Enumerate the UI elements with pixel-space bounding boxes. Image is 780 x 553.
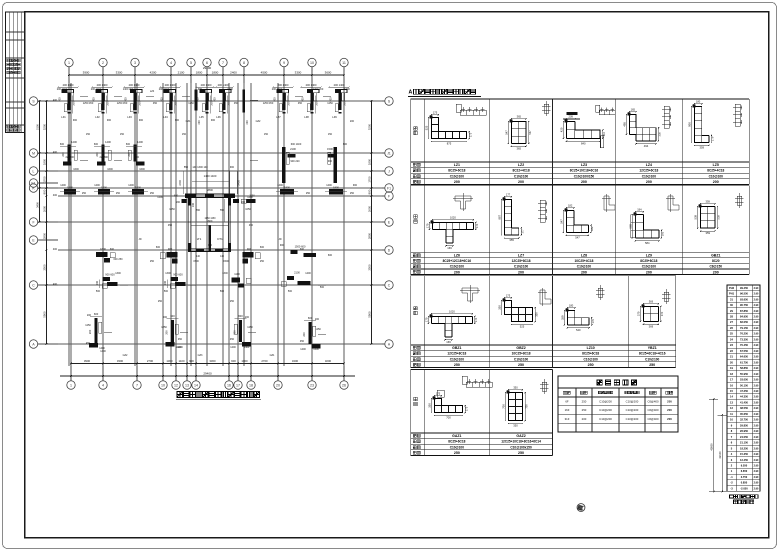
svg-text:2.90: 2.90 [754, 453, 759, 456]
wall column 9 [328, 83, 349, 119]
core inner wall [191, 219, 228, 251]
svg-text:500: 500 [288, 290, 293, 293]
svg-text:200: 200 [163, 316, 168, 319]
svg-text:2.90: 2.90 [754, 482, 759, 485]
svg-text:C6@400: C6@400 [647, 408, 659, 412]
shear wall table title [597, 380, 637, 385]
svg-text:3300: 3300 [209, 359, 216, 363]
svg-text:1300: 1300 [222, 272, 228, 275]
svg-text:1800: 1800 [135, 185, 141, 189]
svg-text:179: 179 [711, 136, 715, 141]
svg-text:1800: 1800 [333, 185, 339, 189]
svg-text:87.850: 87.850 [740, 309, 748, 313]
wall group 17 [243, 247, 254, 264]
svg-text:250: 250 [306, 192, 311, 195]
svg-text:GZ1: GZ1 [270, 354, 275, 357]
svg-text:150: 150 [264, 133, 269, 136]
column table band 1 row header [414, 127, 417, 130]
svg-text:2.90: 2.90 [754, 344, 759, 347]
svg-text:1800: 1800 [67, 185, 73, 189]
svg-text:GAZ2: GAZ2 [516, 434, 525, 438]
svg-text:200: 200 [518, 270, 524, 274]
section LZ8 [567, 211, 589, 233]
svg-text:LZ3: LZ3 [127, 115, 132, 119]
svg-text:170: 170 [425, 223, 429, 228]
svg-text:1800: 1800 [101, 185, 107, 189]
core side marks [174, 195, 256, 204]
svg-text:2.90: 2.90 [754, 321, 759, 324]
svg-text:2.90: 2.90 [754, 465, 759, 468]
svg-text:12C25+10C18+8C16+6C14: 12C25+10C18+8C16+6C14 [501, 440, 541, 444]
svg-text:250: 250 [588, 363, 594, 367]
svg-text:3400: 3400 [292, 359, 299, 363]
svg-text:1800: 1800 [196, 71, 203, 75]
svg-text:250: 250 [116, 192, 121, 195]
svg-text:1500: 1500 [223, 260, 229, 263]
svg-text:359: 359 [560, 315, 564, 320]
svg-text:3300: 3300 [117, 359, 124, 363]
svg-text:LZ5: LZ5 [713, 163, 719, 167]
svg-text:3500: 3500 [367, 264, 371, 271]
svg-text:250: 250 [82, 192, 87, 195]
wall column 2 [91, 83, 112, 119]
svg-text:180: 180 [569, 304, 574, 308]
svg-text:194: 194 [637, 208, 642, 212]
svg-text:F: F [32, 220, 34, 224]
svg-text:200: 200 [164, 280, 167, 285]
svg-text:200: 200 [315, 318, 320, 321]
wall segment h3 [128, 185, 148, 194]
svg-text:250: 250 [454, 451, 460, 455]
svg-text:900: 900 [161, 97, 164, 102]
svg-text:8C22+4C18: 8C22+4C18 [512, 169, 529, 173]
elevation table entries [729, 286, 759, 491]
svg-text:F1: F1 [387, 186, 391, 190]
svg-text:200: 200 [96, 280, 99, 285]
svg-text:600 250: 600 250 [113, 258, 123, 261]
svg-text:600: 600 [170, 314, 175, 318]
section GBZ1 [701, 207, 715, 229]
svg-text:1800: 1800 [284, 185, 290, 189]
svg-text:600: 600 [174, 195, 179, 198]
svg-text:1500: 1500 [327, 147, 333, 151]
column table band 2 frame [411, 185, 750, 274]
column table band 3 row header [414, 307, 417, 310]
svg-text:450: 450 [86, 342, 91, 345]
svg-text:8C20: 8C20 [712, 259, 720, 263]
svg-text:99.450: 99.450 [740, 286, 748, 290]
svg-text:4: 4 [170, 61, 172, 65]
svg-text:900: 900 [330, 97, 333, 102]
svg-text:50.150: 50.150 [740, 383, 748, 387]
svg-text:1250: 1250 [161, 326, 167, 329]
svg-text:LZ7: LZ7 [276, 115, 281, 119]
wall column 8 [300, 83, 321, 119]
svg-text:64.650: 64.650 [740, 355, 748, 359]
svg-text:900 220: 900 220 [290, 160, 300, 163]
column table band 3 texts [413, 346, 666, 367]
svg-text:1400: 1400 [128, 184, 134, 187]
svg-text:900: 900 [168, 247, 173, 251]
svg-text:369: 369 [649, 300, 654, 304]
svg-text:200: 200 [241, 201, 246, 204]
svg-text:C10@200: C10@200 [626, 399, 639, 403]
svg-text:584: 584 [645, 241, 650, 245]
svg-text:200: 200 [174, 101, 178, 106]
svg-text:GBZ1: GBZ1 [452, 346, 461, 350]
column table band 4 frame [411, 370, 553, 456]
svg-text:2.90: 2.90 [754, 293, 759, 296]
svg-text:500: 500 [320, 286, 325, 289]
svg-text:2.90: 2.90 [754, 287, 759, 290]
svg-text:8C25+10C18+6C16: 8C25+10C18+6C16 [570, 169, 599, 173]
svg-text:550: 550 [220, 209, 225, 212]
svg-text:76.250: 76.250 [740, 332, 748, 336]
section LZ5 [695, 107, 709, 143]
svg-text:1400: 1400 [230, 346, 236, 349]
svg-text:365: 365 [517, 115, 522, 119]
svg-text:1050: 1050 [245, 208, 251, 211]
svg-text:200: 200 [245, 316, 250, 319]
svg-text:21.150: 21.150 [740, 441, 748, 445]
svg-text:1600: 1600 [100, 247, 106, 251]
svg-text:250: 250 [158, 300, 163, 303]
wall column 26 [302, 316, 320, 351]
svg-text:900: 900 [302, 97, 305, 102]
svg-text:1600: 1600 [139, 168, 145, 171]
svg-text:7: 7 [222, 61, 224, 65]
svg-text:200: 200 [646, 270, 652, 274]
svg-text:1050: 1050 [169, 208, 175, 211]
bottom grid bubbles [67, 366, 348, 389]
svg-text:250: 250 [260, 260, 265, 263]
svg-text:M: M [32, 151, 35, 155]
svg-text:6: 6 [206, 61, 208, 65]
svg-text:1800: 1800 [212, 71, 219, 75]
svg-text:175: 175 [436, 392, 441, 396]
svg-text:LT1: LT1 [197, 237, 202, 241]
svg-text:2.90: 2.90 [754, 442, 759, 445]
svg-text:C6@400: C6@400 [647, 399, 659, 403]
svg-text:C6@400: C6@400 [647, 417, 659, 421]
svg-text:195: 195 [661, 231, 665, 236]
wall column 7 [272, 83, 293, 119]
svg-text:61.750: 61.750 [740, 360, 748, 364]
svg-text:GZ2: GZ2 [123, 354, 128, 357]
svg-text:200: 200 [646, 180, 652, 184]
svg-text:C10@100/150: C10@100/150 [574, 174, 595, 178]
svg-text:900: 900 [125, 97, 128, 102]
svg-text:8C25+12C18+6C16: 8C25+12C18+6C16 [443, 259, 472, 263]
svg-text:220 900: 220 900 [99, 156, 109, 159]
svg-text:350: 350 [427, 403, 431, 408]
svg-text:200: 200 [246, 120, 249, 125]
svg-text:330: 330 [658, 132, 662, 137]
svg-text:150: 150 [120, 133, 125, 136]
wall column 6 [212, 83, 233, 119]
svg-text:DT1: DT1 [217, 237, 223, 241]
svg-text:1400: 1400 [60, 184, 66, 187]
svg-text:3900: 3900 [84, 359, 91, 363]
svg-text:547: 547 [575, 235, 580, 239]
svg-text:600: 600 [208, 244, 213, 247]
section GBZ2 [432, 317, 473, 337]
svg-text:200: 200 [454, 180, 460, 184]
svg-text:900: 900 [211, 119, 216, 122]
svg-text:F: F [388, 194, 390, 198]
svg-text:200: 200 [138, 101, 142, 106]
svg-text:1400 200: 1400 200 [313, 88, 324, 91]
svg-text:29400: 29400 [203, 371, 212, 375]
svg-text:600: 600 [156, 246, 161, 249]
svg-text:LZ4: LZ4 [646, 163, 652, 167]
svg-text:2.90: 2.90 [754, 356, 759, 359]
svg-text:14: 14 [194, 384, 198, 388]
svg-text:2.90: 2.90 [754, 390, 759, 393]
wall column 5 [195, 83, 216, 119]
shear wall table header row [563, 391, 672, 394]
svg-text:2.90: 2.90 [754, 310, 759, 313]
svg-text:200: 200 [106, 101, 110, 106]
svg-text:900: 900 [280, 244, 285, 247]
svg-text:C10@100: C10@100 [450, 445, 465, 449]
svg-text:900: 900 [214, 97, 217, 102]
svg-text:200: 200 [518, 180, 524, 184]
svg-text:450: 450 [234, 102, 239, 105]
svg-text:250: 250 [150, 192, 155, 195]
svg-text:C10@200: C10@200 [626, 408, 639, 412]
svg-text:600: 600 [94, 143, 99, 146]
svg-text:1250 450: 1250 450 [263, 102, 274, 105]
column table band 4 texts [413, 434, 541, 455]
svg-text:600: 600 [110, 248, 115, 251]
svg-text:LZ7: LZ7 [518, 253, 524, 257]
svg-text:200: 200 [343, 101, 347, 106]
svg-text:900: 900 [231, 359, 236, 363]
svg-text:2.90: 2.90 [754, 447, 759, 450]
svg-text:LZ8: LZ8 [304, 115, 309, 119]
svg-text:200 1400: 200 1400 [129, 83, 140, 87]
svg-text:200 1400: 200 1400 [97, 83, 108, 87]
svg-text:8C25+6C18: 8C25+6C18 [582, 352, 599, 356]
svg-text:140 1300 140: 140 1300 140 [192, 166, 208, 169]
svg-text:38.550: 38.550 [740, 406, 748, 410]
svg-text:1800: 1800 [367, 158, 371, 165]
svg-text:1400: 1400 [94, 184, 100, 187]
svg-text:96.550: 96.550 [740, 292, 748, 296]
svg-text:5900: 5900 [367, 311, 371, 318]
svg-text:900: 900 [353, 184, 358, 187]
svg-text:55.950: 55.950 [740, 372, 748, 376]
svg-text:26: 26 [342, 384, 346, 388]
svg-text:3500: 3500 [42, 264, 46, 271]
svg-text:2.90: 2.90 [754, 304, 759, 307]
svg-text:JD: JD [138, 238, 141, 241]
svg-text:C10@200: C10@200 [599, 399, 612, 403]
svg-text:200 1400: 200 1400 [63, 83, 74, 87]
section YBZ1 [644, 307, 659, 322]
svg-text:LZ10: LZ10 [587, 346, 595, 350]
svg-text:13: 13 [185, 384, 189, 388]
svg-text:1150 1150: 1150 1150 [205, 217, 217, 220]
svg-text:1020: 1020 [450, 216, 456, 220]
svg-text:600: 600 [60, 143, 65, 146]
svg-text:250: 250 [518, 363, 524, 367]
svg-text:200 1400: 200 1400 [306, 83, 317, 87]
svg-text:420: 420 [559, 127, 563, 132]
svg-text:2.90: 2.90 [754, 361, 759, 364]
svg-text:359: 359 [706, 200, 711, 204]
svg-text:C10@100: C10@100 [584, 357, 599, 361]
svg-text:539: 539 [717, 215, 721, 220]
svg-text:2400: 2400 [230, 71, 237, 75]
svg-text:7: 7 [136, 384, 138, 388]
svg-text:1600: 1600 [73, 168, 79, 171]
wall group 19 [96, 273, 118, 289]
svg-text:900: 900 [274, 97, 277, 102]
svg-text:600: 600 [94, 312, 99, 316]
svg-text:250: 250 [582, 399, 587, 403]
svg-text:200: 200 [581, 180, 587, 184]
svg-text:2.90: 2.90 [754, 401, 759, 404]
svg-text:2.90: 2.90 [754, 424, 759, 427]
svg-text:15.350: 15.350 [740, 452, 748, 456]
svg-text:2.90: 2.90 [754, 459, 759, 462]
svg-text:200: 200 [581, 270, 587, 274]
svg-text:175: 175 [468, 132, 472, 137]
svg-text:200: 200 [454, 270, 460, 274]
svg-text:200: 200 [165, 330, 169, 335]
svg-text:GBZ2: GBZ2 [516, 346, 525, 350]
svg-text:JD: JD [278, 238, 281, 241]
svg-text:600 1400: 600 1400 [291, 143, 302, 146]
svg-text:10C25+8C18: 10C25+8C18 [512, 352, 531, 356]
svg-text:3900: 3900 [83, 71, 90, 75]
svg-text:900: 900 [135, 156, 140, 159]
svg-text:400: 400 [53, 283, 58, 286]
section LZ6 [433, 223, 474, 243]
svg-text:175: 175 [506, 294, 511, 298]
column table band 1 texts [413, 163, 724, 184]
svg-text:887: 887 [497, 215, 501, 220]
svg-text:540: 540 [576, 328, 581, 332]
svg-text:400: 400 [53, 99, 58, 102]
svg-text:J: J [388, 169, 390, 173]
svg-text:C10@100: C10@100 [577, 265, 592, 269]
svg-text:12.450: 12.450 [740, 458, 748, 462]
svg-text:1800: 1800 [42, 158, 46, 165]
section LZ4 [630, 115, 656, 141]
svg-text:LZ1: LZ1 [454, 163, 460, 167]
svg-text:1250: 1250 [327, 102, 333, 105]
core bottom wall [188, 249, 231, 252]
svg-text:900: 900 [107, 119, 112, 122]
svg-text:900: 900 [139, 119, 144, 122]
svg-text:16F: 16F [565, 408, 570, 412]
plan small wall outline rects [74, 150, 331, 336]
svg-text:2800: 2800 [207, 188, 213, 192]
svg-text:1400: 1400 [100, 350, 106, 353]
svg-text:1700: 1700 [42, 176, 46, 183]
svg-text:150: 150 [328, 133, 333, 136]
svg-text:1100: 1100 [234, 272, 240, 276]
svg-text:494: 494 [644, 144, 649, 148]
svg-text:900: 900 [189, 359, 194, 363]
structural elevation table [727, 285, 760, 491]
svg-text:4: 4 [102, 384, 104, 388]
title block text rows [7, 59, 20, 131]
wall column 23 [88, 312, 105, 350]
svg-text:1400: 1400 [137, 140, 143, 144]
svg-text:10C25+4C18: 10C25+4C18 [575, 259, 594, 263]
svg-text:2.90: 2.90 [754, 333, 759, 336]
column table band 2 texts [413, 253, 722, 274]
svg-text:1400: 1400 [177, 346, 183, 349]
svg-text:26.950: 26.950 [740, 429, 748, 433]
svg-text:200: 200 [315, 101, 319, 106]
wall group 20 [164, 273, 186, 289]
core right wall [228, 198, 231, 252]
plan horizontal grid lines [58, 101, 382, 344]
wall column 9b [195, 90, 202, 125]
svg-text:1400: 1400 [326, 184, 332, 187]
svg-text:2.90: 2.90 [754, 396, 759, 399]
svg-text:350: 350 [497, 305, 501, 310]
wall column 9c [242, 90, 249, 125]
svg-text:1250: 1250 [315, 328, 321, 331]
svg-text:250: 250 [582, 408, 587, 412]
svg-text:C10@100: C10@100 [645, 357, 660, 361]
svg-text:370: 370 [660, 311, 664, 316]
svg-text:175: 175 [433, 111, 438, 115]
svg-text:LZ4: LZ4 [150, 90, 155, 93]
svg-text:18.250: 18.250 [740, 446, 748, 450]
svg-text:4500: 4500 [261, 71, 268, 75]
svg-text:200 1400: 200 1400 [272, 88, 283, 91]
wall segment h4 [276, 185, 298, 194]
svg-text:8C25+4C18: 8C25+4C18 [707, 169, 724, 173]
svg-text:2.90: 2.90 [754, 350, 759, 353]
svg-text:200 1400: 200 1400 [165, 83, 176, 87]
svg-text:200 1400: 200 1400 [334, 83, 345, 87]
svg-text:170: 170 [424, 317, 428, 322]
svg-text:90.750: 90.750 [740, 303, 748, 307]
svg-text:200: 200 [61, 152, 65, 157]
svg-text:3.750: 3.750 [741, 475, 748, 479]
svg-text:450: 450 [230, 338, 235, 341]
core left wall [188, 198, 191, 252]
svg-text:93.650: 93.650 [740, 297, 748, 301]
svg-text:C10@100: C10@100 [514, 265, 529, 269]
section LZ3 [567, 122, 601, 139]
svg-text:3: 3 [134, 61, 136, 65]
svg-text:4200: 4200 [150, 71, 157, 75]
svg-text:800: 800 [42, 189, 46, 194]
svg-text:200: 200 [302, 332, 306, 337]
svg-text:525: 525 [424, 125, 428, 130]
svg-text:900 600: 900 600 [173, 273, 183, 277]
svg-text:200: 200 [176, 201, 181, 204]
svg-text:550: 550 [184, 166, 189, 169]
svg-text:12C25+6C18: 12C25+6C18 [639, 169, 658, 173]
svg-text:900: 900 [687, 122, 691, 127]
svg-text:400: 400 [53, 248, 58, 251]
svg-text:600: 600 [328, 254, 333, 257]
svg-text:547: 547 [559, 219, 563, 224]
svg-text:182: 182 [590, 226, 594, 231]
svg-text:600: 600 [343, 143, 348, 146]
svg-text:2.90: 2.90 [754, 298, 759, 301]
